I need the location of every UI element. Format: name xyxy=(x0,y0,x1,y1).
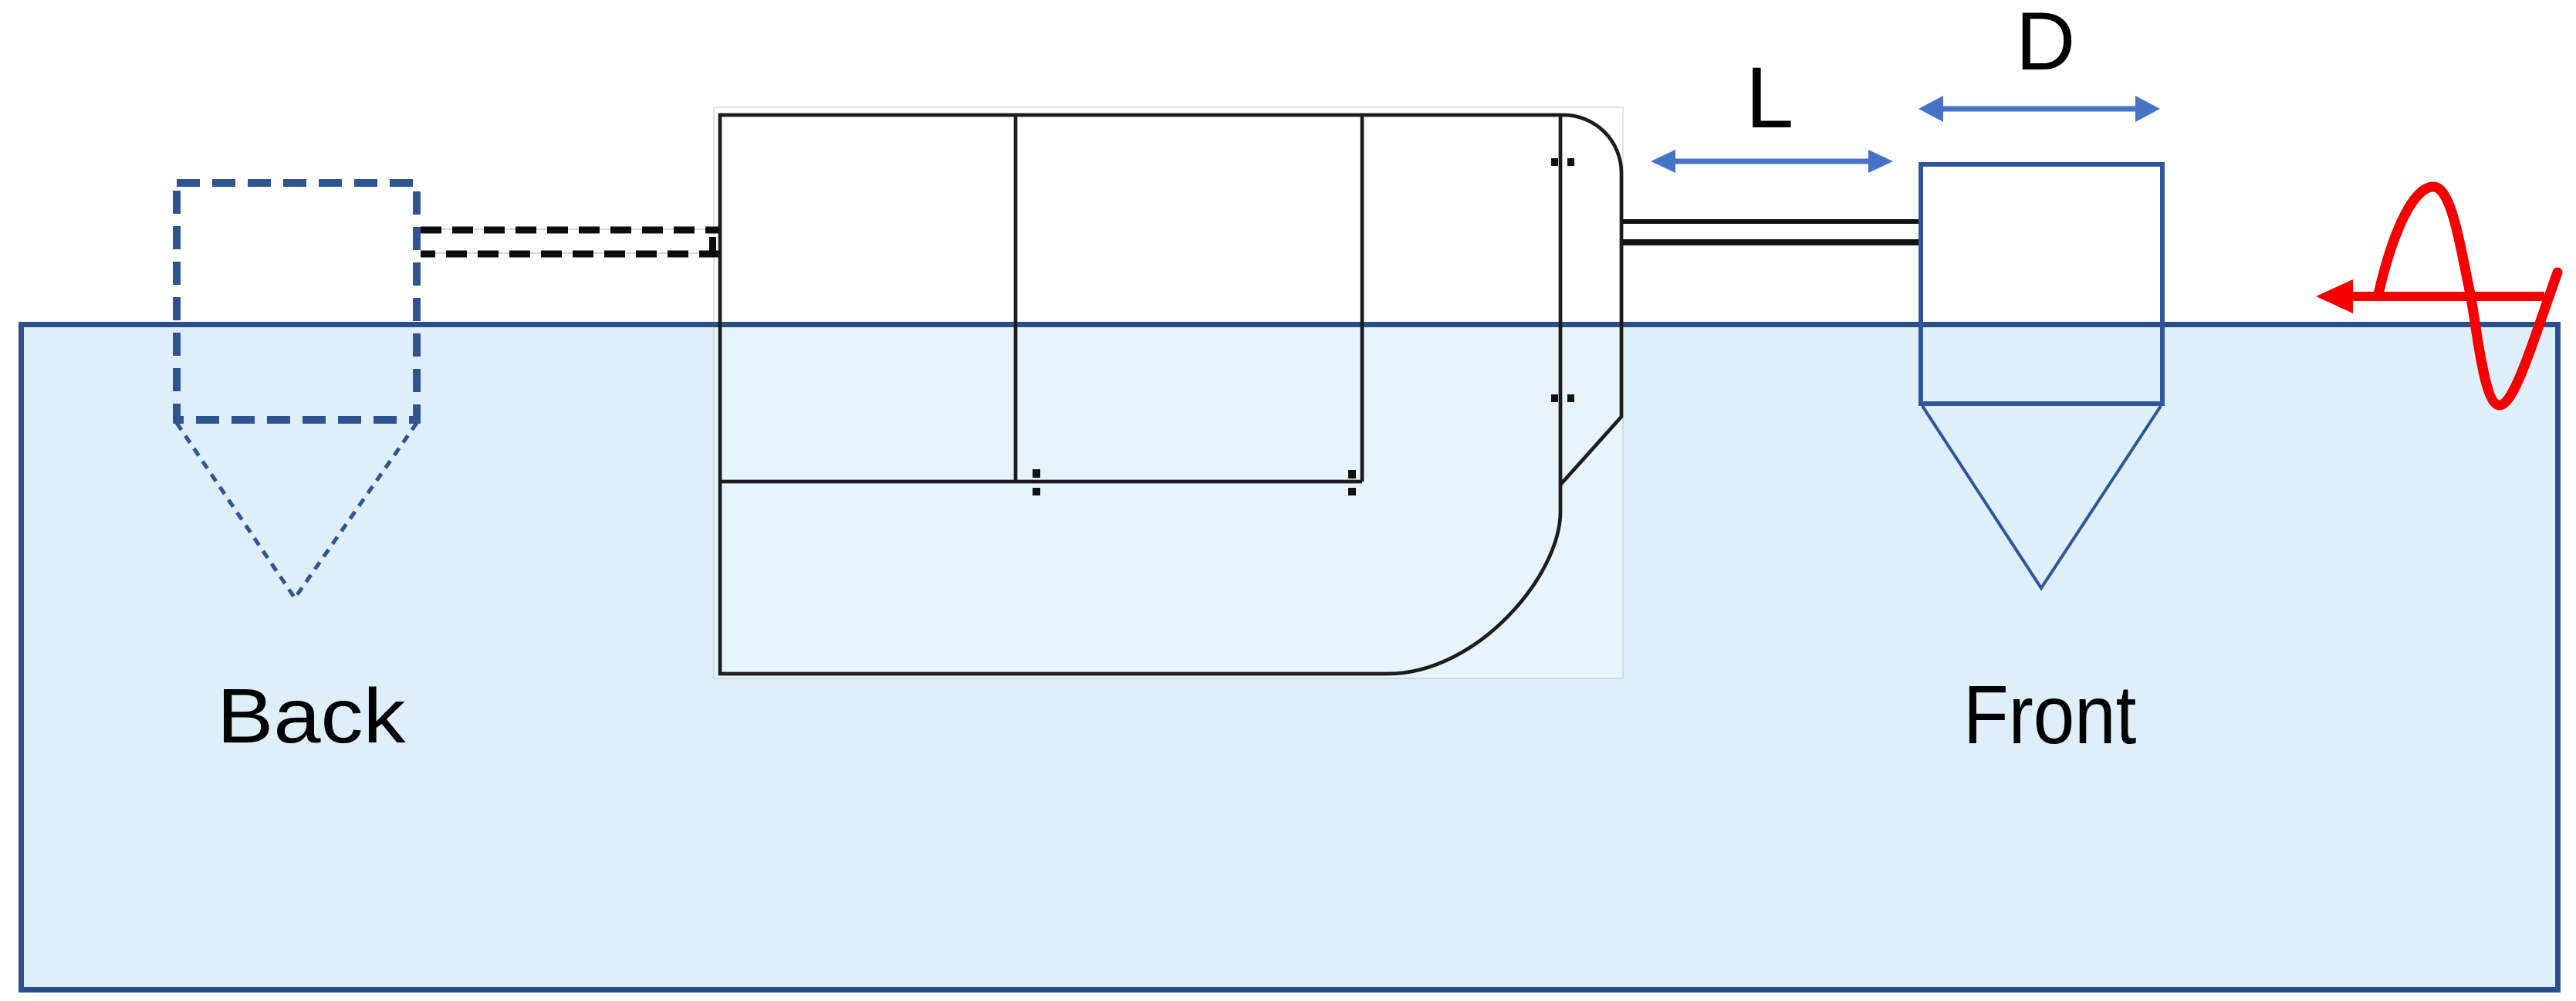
svg-text:Front: Front xyxy=(1963,668,2136,761)
svg-text:L: L xyxy=(1746,49,1793,146)
svg-text:D: D xyxy=(2016,0,2075,87)
svg-text:Back: Back xyxy=(217,674,406,759)
